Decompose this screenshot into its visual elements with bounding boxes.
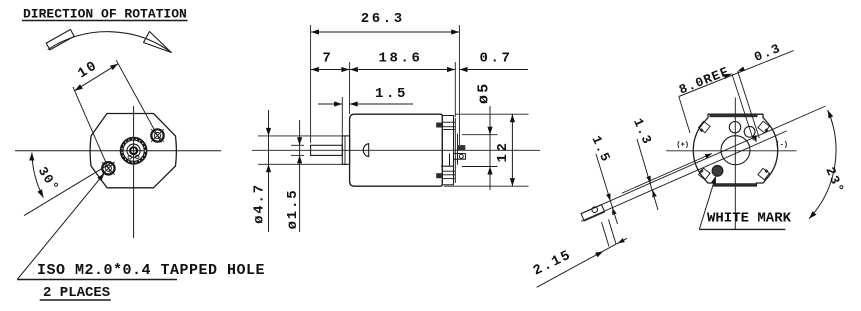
dia1.5 ext bottom (shaft bottom) [291,154,304,156]
rear corner tab TR [758,121,770,133]
arrow on L at S1 [723,74,731,79]
rear cap seam band bottom [715,183,757,185]
boss inner line [344,136,346,164]
dim 12 top arrow [510,114,515,122]
dim 2.15 tail [618,238,627,243]
23deg angular dimension arc [809,110,836,219]
dim 12 ext bottom [444,185,529,187]
dim1.3 arrow lower [652,190,656,197]
rear body outline [693,114,777,186]
0.3 steep ext line S2 [738,71,760,138]
tapped hole H1 45deg ticks [151,129,164,142]
dia1.5 bottom arrow (outside) [297,155,302,163]
cap right edge line 1 [454,118,456,183]
terminal lug with hole [441,154,466,167]
svg-text:(-): (-) [775,142,788,150]
svg-text:ISO M2.0*0.4 TAPPED HOLE: ISO M2.0*0.4 TAPPED HOLE [37,262,265,279]
rear corner tab BL [699,168,711,180]
rear top circle A [729,122,740,133]
terminal lug left edge [449,154,451,167]
rear view vertical centerline [734,98,736,231]
hub knurled ring [122,139,145,162]
0.3 steep ext line S1 [732,74,754,141]
dim 7 left arrow [311,67,319,72]
dia1.5 ext top (shaft top) [291,144,304,146]
dim 1.5 right arrow (outside) [350,101,358,106]
ext line at boss left x=342.3 [341,97,343,136]
dim line 7 and 18.6 [311,69,455,71]
dia4.7 top arrow (outside) [266,128,271,136]
svg-text:ø5: ø5 [476,82,493,104]
svg-text:WHITE MARK: WHITE MARK [707,211,792,227]
white mark underline [699,228,785,230]
23deg arc arrow bottom [809,211,816,219]
hub detail circle b [135,155,139,159]
tilted dim line L (8.0REF/0.3) [679,51,794,97]
rear center circle [721,136,750,165]
title underline [22,20,188,22]
svg-text:7: 7 [322,51,330,67]
dim1.5 arrow lower [612,208,616,215]
side view horizontal centerline [252,149,540,151]
svg-text:DIRECTION OF ROTATION: DIRECTION OF ROTATION [23,7,187,22]
ext line at body left x=349.6 [349,62,351,114]
terminal plate upper (dark) [458,145,466,150]
dia5 ext top [462,134,498,136]
dim 2.15 arrow [595,251,603,257]
cap bottom band line 1 [442,170,455,172]
leader line to note [17,173,104,279]
dim 1.5 left tail [318,103,342,105]
dim 2.15 ext line 1 [602,222,610,247]
hub outer circle [120,137,147,164]
dim 2.15 ext line 2 [609,220,617,245]
svg-text:0.7: 0.7 [479,51,512,67]
dia5 ext bottom [462,166,498,168]
terminal (rear, lower-left) rectangle [581,205,605,221]
terminal axis line E1 (long diagonal) [581,106,826,214]
dia5 bottom arrow (outside) [487,167,492,175]
svg-text:12: 12 [495,140,511,162]
ext line at shaft tip x=310.6 [310,25,312,143]
dim 12 line vertical [511,114,513,186]
30deg angular dimension arc [32,153,44,198]
note underline 1 [17,279,177,281]
cap top band line 3 [442,129,455,131]
dim 2.15 leader line [537,243,618,287]
terminal lug hole [459,154,463,158]
cap top band line 1 [442,121,455,123]
rotation arrowhead (open) [144,32,172,53]
tapped hole H1 45deg ticks [151,129,164,142]
svg-text:(+): (+) [676,142,689,150]
dia1.5 dim line vertical [299,120,301,232]
30deg reference line through H2 [24,162,112,215]
arrow at bottom of steep pair [752,135,756,142]
leader arrow at H2 [97,173,104,181]
tapped hole H2 45deg ticks [102,162,115,175]
rotation arrow tail (rotated rectangle) [46,30,74,50]
dim 7 right arrow [341,67,349,72]
dim 18.6 right arrow [447,67,455,72]
rotation arc [48,32,172,53]
dim 12 bottom arrow [510,178,515,186]
dia4.7 ext top (boss top) [258,135,346,137]
23deg arc arrow top [828,110,834,118]
note underline 2 [40,299,111,301]
shaft end D-marker [363,144,368,157]
dia4.7 bottom arrow (outside) [266,164,271,172]
tapped hole H1 ring [151,129,163,141]
motor shaft [311,145,343,155]
end cap outline [442,116,453,185]
cap right edge line 2 [457,134,459,165]
front view horizontal centerline [15,150,221,152]
dia5 top arrow (outside) [487,127,492,135]
dim 10 dimension line [75,64,119,91]
rear cap seam band top [710,115,758,118]
dim 10 extension line through H1 [116,60,161,142]
dim 1.3 line [637,139,658,210]
steep ext from L left end [679,97,690,134]
short diagonal E0 with arrow [622,154,712,194]
dim 26.3 line [311,31,459,33]
dim1.3 arrow upper [646,176,650,183]
arrow at end of E0 [705,154,712,159]
motor front face outline [90,114,176,188]
svg-text:26.3: 26.3 [361,11,405,27]
dia1.5 top arrow (outside) [297,137,302,145]
shaft circle [130,147,137,154]
dim 26.3 right arrow [451,29,459,34]
dim1.5 arrow upper [606,193,610,200]
cap bottom band line 3 [442,178,455,180]
tapped hole H2 inner circle [105,165,111,171]
can crimp tab bottom [436,173,442,178]
tapped hole H2 ring [102,162,114,174]
dim 12 ext top [455,113,529,115]
dim 10 extension line through H2 [73,87,111,175]
hub detail circle a [128,156,132,160]
front bushing boss [342,136,349,164]
rear corner tab BR [758,168,770,180]
dim 10 arrow upper-right [110,64,118,70]
dim 1.5 right tail [350,103,413,105]
dim 0.7 tail line [459,69,528,71]
dim 26.3 left arrow [311,29,319,34]
rear circle B (offset hole) [744,126,755,137]
30deg arc arrow top [29,153,34,161]
terminal hole (rear) [592,207,598,213]
svg-text:ø4.7: ø4.7 [252,183,268,224]
terminal axis line E2 (long diagonal) [581,131,787,222]
white mark leader arrow [711,176,716,184]
cap top band line 2 [442,126,455,128]
dim 1.5(right view) line [596,154,618,224]
dia5 dim line vertical [489,106,491,190]
svg-text:18.6: 18.6 [378,51,422,67]
dim 10 arrow lower-left [75,84,83,90]
tapped hole H2 45deg ticks [102,162,115,175]
front view vertical centerline [133,106,135,238]
dia4.7 ext bottom (boss bottom) [258,163,346,165]
cap bottom band line 2 [442,174,455,176]
ext line at terminal right x=459.4 [458,25,460,145]
hub inner circle [127,144,140,157]
dim 2.15 arrow 2 [618,238,625,243]
motor body (side) [350,114,443,186]
tapped hole H1 inner circle [154,132,160,138]
rear view horizontal centerline [666,150,797,152]
dim 18.6 left arrow [350,67,358,72]
svg-text:1.5: 1.5 [375,86,408,102]
dim 1.5 left arrow (outside) [334,101,342,106]
dia4.7 dim line vertical [268,110,270,232]
rear corner tab TL [699,121,711,133]
ext line at cap right x=455.3 [454,62,456,117]
arrow on L at S2 [738,67,745,72]
svg-text:2 PLACES: 2 PLACES [43,285,110,301]
30deg arc arrow bottom [37,189,43,197]
white mark dot (filled) [712,165,723,176]
dim 0.7 right arrow (outside) [460,67,468,72]
can crimp tab top [436,123,442,128]
white mark leader line [699,176,716,230]
svg-text:ø1.5: ø1.5 [285,189,301,230]
